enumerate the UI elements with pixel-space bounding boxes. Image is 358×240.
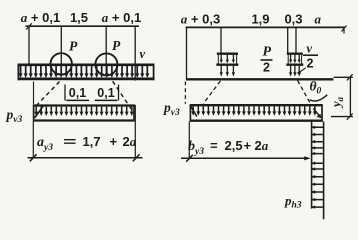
extension line a_y3 right [134, 105, 136, 158]
tick bar left of 0,1 dimension [64, 85, 66, 101]
svg-text:a + 0,1: a + 0,1 [21, 10, 60, 25]
svg-text:a: a [315, 12, 322, 27]
wall load strip left envelope line [311, 122, 313, 209]
dimension line b_y3 with right arrow into wall [181, 157, 309, 159]
surface load band end caps [18, 64, 153, 81]
svg-text:2,5: 2,5 [225, 138, 243, 153]
lower band arrow heads (right) [191, 111, 316, 115]
y_a dimension vertical line [349, 77, 351, 116]
svg-text:P: P [263, 45, 272, 60]
angle arc theta_0 [310, 95, 328, 101]
top dimension line right diagram [186, 26, 346, 28]
svg-text:0,1: 0,1 [69, 86, 86, 100]
wheel patch 2 top bar [287, 53, 303, 55]
load line wheel 2 (P) [105, 26, 107, 75]
y_a dimension top terminator [334, 76, 353, 78]
dashed vertical edge below ground left [184, 82, 186, 104]
svg-text:1,5: 1,5 [70, 10, 88, 25]
surface load band bottom chord [18, 78, 155, 81]
wheel 1 circle [51, 53, 72, 74]
svg-text:1,7: 1,7 [83, 134, 101, 149]
y_a dimension bottom terminator [331, 116, 353, 118]
load line wheel 1 (P) [60, 26, 62, 75]
dashed dispersal line left [36, 82, 60, 107]
lower band bottom chord (right) [190, 120, 323, 122]
svg-text:2a: 2a [255, 138, 269, 153]
svg-text:a + 0,1: a + 0,1 [102, 10, 141, 25]
svg-text:v: v [140, 47, 146, 61]
lower band end caps (right) [190, 104, 322, 121]
patch 2 side edges [288, 55, 301, 64]
surface load band (v) top chord [18, 63, 155, 66]
extension line to patch 1 [220, 27, 222, 53]
extension line ground left [186, 27, 188, 79]
slash tick left a_y3 [30, 154, 37, 161]
extension line a_y3 left [32, 122, 34, 158]
wall face line [323, 122, 325, 220]
extension line at x=135 through band [134, 26, 136, 81]
patch 1 upper arrows [221, 55, 233, 60]
dashed dispersal line from patch 2 to wall [298, 81, 310, 103]
surface load band arrow shafts [21, 66, 148, 74]
svg-text:2: 2 [307, 57, 314, 71]
slash tick left b_y3 [186, 155, 193, 162]
dashed dispersal line right [113, 81, 134, 113]
lower band p_v3 top chord [33, 104, 135, 106]
lower band p_v3 bottom chord [33, 119, 135, 121]
extension line / tick at x=29 [28, 26, 30, 64]
wheel patch 1 top bar [217, 53, 238, 55]
end tick right [342, 26, 347, 34]
wheel patch 1 bottom bar [216, 64, 238, 66]
surface load band arrow heads [19, 73, 150, 78]
leader arrow from v/2 to patch 2 [299, 68, 306, 73]
dispersal slash through band left corner (right) [191, 107, 197, 117]
thin connector band edge to lower band (left) [33, 82, 35, 105]
svg-text:1,9: 1,9 [251, 12, 269, 27]
svg-text:+: + [244, 138, 252, 153]
dispersal slash through lower band left corner [35, 105, 44, 118]
svg-text:2: 2 [263, 61, 270, 75]
svg-text:v: v [307, 42, 313, 56]
horizontal pressure arrows p_h3 [312, 127, 324, 207]
slash tick right a_y3 [133, 154, 140, 161]
corner arrow at band right end [313, 109, 320, 117]
svg-text:+: + [110, 134, 118, 149]
svg-text:P: P [69, 39, 78, 54]
svg-text:0,1: 0,1 [97, 86, 114, 100]
lower band end caps [34, 105, 134, 122]
top dimension line left diagram [26, 25, 140, 27]
ground surface line [186, 78, 333, 80]
lower band arrow shafts [36, 107, 132, 112]
svg-text:2a: 2a [123, 134, 137, 149]
svg-text:a + 0,3: a + 0,3 [181, 12, 220, 27]
wheel 2 circle [95, 53, 117, 75]
svg-text:P: P [112, 38, 121, 53]
lower band p_v3 top chord (right) [190, 104, 323, 106]
extension lines 0,3 to patch 2 [288, 27, 296, 53]
patch 2 lower arrows [291, 66, 300, 73]
svg-text:=: = [210, 138, 218, 153]
extension line b_y3 left [188, 122, 190, 159]
dashed dispersal line from patch 1 [203, 81, 220, 104]
patch 2 upper arrows [291, 55, 300, 60]
svg-text:0,3: 0,3 [284, 12, 302, 27]
svg-text:=: = [63, 134, 77, 149]
wheel patch 2 bottom bar [286, 64, 303, 66]
dimension line a_y3 [28, 157, 143, 159]
lower band arrow heads [34, 112, 133, 116]
lower band arrow shafts (right) [193, 106, 315, 111]
underline dimension segs for 0,1 0,1 [66, 99, 117, 101]
patch 1 side edges [218, 55, 236, 64]
tick bar right of 0,1 dimension [118, 85, 120, 101]
patch 1 lower arrows [221, 66, 233, 73]
